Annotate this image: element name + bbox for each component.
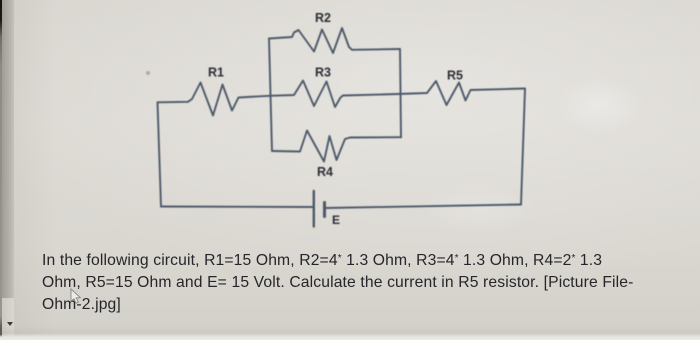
- svg-text:R3: R3: [315, 65, 331, 79]
- scrollbar track: [2, 0, 14, 340]
- mouse cursor: [69, 288, 85, 306]
- resistor R1: [158, 83, 270, 116]
- svg-text:R5: R5: [447, 68, 463, 82]
- svg-text:R4: R4: [317, 165, 333, 179]
- wire outer left vertical: [158, 103, 162, 207]
- wire bottom right: [326, 205, 522, 209]
- resistor R3: [270, 81, 344, 108]
- svg-text:R2: R2: [315, 11, 331, 25]
- resistor R5: [343, 81, 525, 105]
- wire outer right vertical: [521, 89, 525, 205]
- svg-text:R1: R1: [208, 66, 224, 80]
- wire inner left vertical: [269, 39, 272, 152]
- battery E short plate: [323, 203, 326, 217]
- resistor R4: [272, 131, 401, 162]
- scrollbar down-arrow: [7, 322, 13, 326]
- wire bottom left: [161, 206, 313, 209]
- photo edge sliver: [0, 0, 2, 340]
- scrollbar thumb: [2, 0, 14, 298]
- problem text: [42, 248, 682, 316]
- resistor R2: [269, 28, 400, 53]
- speck: [146, 71, 150, 75]
- wire inner right vertical: [400, 49, 401, 137]
- battery E long plate: [313, 191, 315, 227]
- svg-text:E: E: [332, 213, 340, 227]
